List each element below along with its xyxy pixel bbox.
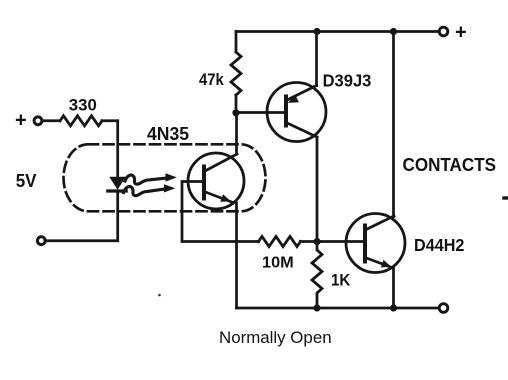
arrow of Q3 emitter [381, 260, 391, 268]
node junction bottom rail / Q3 emitter [390, 304, 397, 311]
wire 10M to D44H2 base [301, 240, 366, 243]
wire node to 10M [237, 240, 259, 243]
svg-text:D44H2: D44H2 [414, 235, 465, 255]
svg-text:4N35: 4N35 [147, 124, 189, 144]
svg-text:+: + [455, 22, 467, 44]
arrow of Q2 emitter [220, 194, 231, 202]
resistor R4 330 [60, 116, 102, 126]
wire input to 330 [42, 119, 60, 122]
wire top rail corner down to 47k [235, 32, 238, 53]
node junction top rail / D39J3 emitter [313, 28, 320, 35]
wire from 330 corner down to LED anode [116, 121, 119, 177]
wire bottom input to LED [45, 239, 118, 242]
node junction 10M / 1K / Q1 collector [313, 238, 320, 245]
stray scan mark right edge [504, 196, 508, 199]
wire Q2 emitter down [235, 203, 238, 308]
wire Q1 collector down to 10M/1K node [316, 137, 319, 242]
svg-text:47k: 47k [199, 70, 224, 89]
terminal input (bottom left) [37, 237, 45, 245]
transistor Q3 D44H2 (NPN) [346, 214, 405, 273]
diode D1 LED of optocoupler [109, 177, 126, 190]
wire 330 to corner [102, 119, 118, 122]
svg-text:D39J3: D39J3 [323, 71, 372, 91]
resistor R1 47k [231, 52, 241, 95]
optocoupler U1 dashed outline [64, 144, 266, 211]
resistor R2 10M [259, 237, 301, 247]
transistor Q1 D39J3 (PNP) [267, 83, 326, 142]
light arrow 2 [124, 187, 165, 196]
light arrow 1 [125, 175, 166, 184]
resistor R3 1K [312, 242, 322, 309]
terminal + input (top left) [34, 117, 42, 125]
terminal bottom right [439, 304, 448, 313]
svg-text:10M: 10M [262, 254, 294, 271]
svg-text:+: + [15, 110, 27, 132]
wire D39J3 base [236, 111, 286, 114]
arrow of Q1 emitter (points toward base bar) [288, 95, 299, 103]
transistor Q2 phototransistor of 4N35 [188, 153, 244, 209]
wire Q3 collector up to top rail [392, 32, 395, 217]
wire Q1 emitter up to top rail [315, 32, 318, 86]
svg-text:1K: 1K [331, 270, 351, 289]
wire 47k bottom to node [235, 95, 238, 113]
wire Q2 base stub left and down [182, 182, 237, 242]
wire bottom rail [237, 307, 441, 310]
stray scan speck [158, 294, 161, 297]
wire top supply rail [236, 30, 440, 33]
wire Q3 emitter down to bottom rail [392, 268, 395, 309]
svg-text:Normally Open: Normally Open [219, 328, 332, 347]
wire Q2 collector up to 47k node [235, 113, 238, 154]
terminal + (top right) [439, 27, 448, 36]
svg-text:CONTACTS: CONTACTS [403, 155, 497, 175]
node junction top rail / D44H2 collector [390, 28, 397, 35]
svg-text:5V: 5V [16, 171, 37, 191]
node junction 1K / bottom rail [313, 304, 320, 311]
wire LED cathode down to bottom input [116, 191, 119, 241]
node junction 47k / opto collector / D39J3 base [232, 109, 239, 116]
svg-text:330: 330 [69, 96, 97, 115]
